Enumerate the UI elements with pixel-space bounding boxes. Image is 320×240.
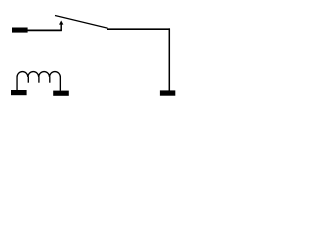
wire riser to switch arrow	[60, 24, 62, 31]
terminal pad T3 (inductor left)	[11, 90, 27, 95]
inductor L1 loop tail 2	[38, 77, 40, 83]
inductor L1 (4-turn coil)	[17, 72, 60, 91]
inductor L1 loop tail 3	[49, 77, 51, 83]
terminal pad T4 (inductor right)	[53, 91, 69, 96]
terminal pad T2 (bottom right)	[160, 90, 175, 95]
inductor L1 loop tail 1	[27, 77, 29, 83]
switch S1 arrow (pivot contact)	[59, 21, 63, 25]
terminal pad T1 (top left)	[12, 28, 28, 33]
switch S1 blade (open)	[55, 16, 108, 29]
wire from T1 to switch pivot	[28, 29, 61, 31]
wire down right side	[168, 28, 170, 90]
wire from switch throw to right	[107, 28, 170, 30]
